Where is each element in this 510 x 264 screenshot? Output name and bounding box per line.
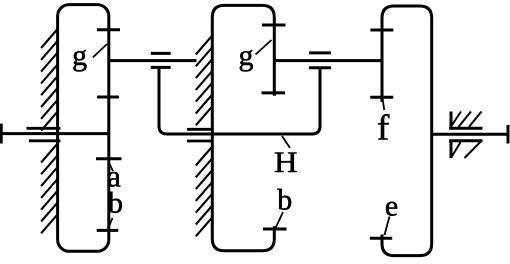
right frame bearing upper bracket xyxy=(449,112,483,129)
left frame wall upper hatching xyxy=(41,29,58,131)
middle frame wall lower bearing base line xyxy=(187,140,214,143)
svg-text:g: g xyxy=(239,39,254,72)
gear b tooth tick on left block xyxy=(97,229,119,232)
leader line for label g (middle) xyxy=(256,40,272,55)
left compound gear block (gears g-a-b shaft unit) xyxy=(58,5,109,252)
svg-text:f: f xyxy=(377,107,390,147)
middle frame wall upper bearing base line xyxy=(187,128,214,131)
left frame wall upper bearing base line xyxy=(27,127,61,130)
carrier H frame xyxy=(159,67,320,134)
gear tooth tick: lower g mesh on left block xyxy=(97,96,119,99)
input shaft end cap xyxy=(0,124,3,144)
gear tooth tick: upper g mesh on left block xyxy=(97,28,120,31)
gear tooth tick: upper g mesh on middle block xyxy=(262,24,286,27)
middle frame wall upper hatching xyxy=(196,36,213,126)
right gear block (gears f and e) xyxy=(382,6,432,256)
leader line for label a xyxy=(108,162,113,172)
planet gear shaft g, right segment xyxy=(274,59,382,62)
leader line for label H xyxy=(282,136,290,148)
gear b tooth tick on middle block xyxy=(263,228,287,231)
gear tooth tick: lower g mesh on middle block xyxy=(262,91,286,94)
output shaft end cap xyxy=(507,125,510,144)
svg-text:e: e xyxy=(385,189,398,222)
carrier bearing left: upper bar xyxy=(151,52,171,55)
leader line for label b (middle) xyxy=(275,212,283,229)
carrier bearing right: upper bar xyxy=(309,51,331,54)
leader line for label g (left) xyxy=(93,44,107,58)
carrier bearing left: lower bar xyxy=(151,66,171,69)
svg-text:b: b xyxy=(277,183,292,216)
gear f tooth tick xyxy=(370,96,393,99)
leader line for label f xyxy=(383,99,385,110)
planet gear shaft g, left segment xyxy=(109,59,197,62)
middle gear block (planet gears g and b) xyxy=(212,5,274,250)
leader line for label e xyxy=(385,217,390,236)
svg-text:H: H xyxy=(274,146,298,179)
gear tooth tick: top mesh on right block xyxy=(370,29,393,32)
left frame wall lower hatching xyxy=(41,144,58,234)
gear a tooth tick xyxy=(96,157,122,160)
input shaft xyxy=(0,132,109,135)
output shaft xyxy=(432,133,508,136)
svg-text:g: g xyxy=(72,39,87,72)
right frame bearing lower hatching xyxy=(452,141,482,158)
right frame bearing lower bracket xyxy=(449,141,483,158)
gear e tooth tick xyxy=(370,237,392,240)
middle frame wall lower hatching xyxy=(196,147,213,237)
carrier bearing right: lower bar xyxy=(309,66,331,69)
leader line for label b (left) xyxy=(108,218,113,229)
right frame bearing upper hatching xyxy=(452,112,482,127)
left frame wall lower bearing base line xyxy=(29,139,61,142)
svg-text:b: b xyxy=(108,187,123,220)
